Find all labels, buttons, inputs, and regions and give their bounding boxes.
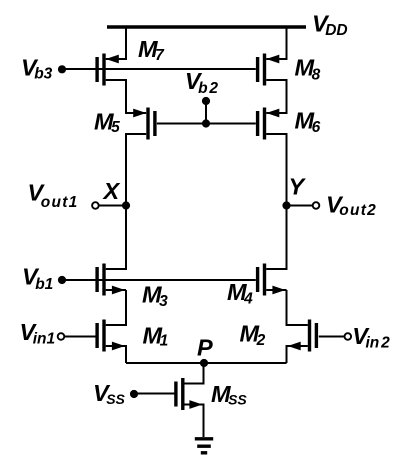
- wire M2 source to rail P: [287, 346, 308, 363]
- wire M8 drain to M6 source: [266, 80, 286, 113]
- wire Vb2 stub: [205, 101, 207, 124]
- terminal Vout1: [92, 202, 99, 209]
- transistor M4 (NMOS): [256, 264, 286, 296]
- wire M8 source to VDD: [266, 27, 286, 59]
- wire tail rail P: [126, 362, 287, 364]
- terminal dot Vb2: [202, 97, 210, 105]
- transistor M1 (NMOS): [95, 320, 125, 352]
- wire M5 drain to node X to M3 drain: [106, 134, 147, 269]
- wire Vb2 to gates of M5 M6: [157, 123, 256, 125]
- transistor MSS (NMOS): [174, 378, 202, 410]
- wire M4 source to M2 drain: [287, 290, 308, 325]
- transistor M8 (PMOS): [256, 54, 279, 86]
- node X dot: [122, 201, 130, 209]
- wire Vb1 to gates of M3 M4: [62, 279, 256, 281]
- ground: [195, 439, 213, 453]
- wire M7 source to VDD: [106, 27, 126, 59]
- wire Vin2 to M2 gate: [319, 336, 345, 338]
- transistor M5 (PMOS mirrored): [133, 108, 156, 140]
- svg-text:X: X: [102, 178, 121, 204]
- wire M4 source lead: [266, 289, 286, 291]
- wire P to MSS drain: [185, 363, 204, 384]
- VDD rail: [107, 25, 306, 28]
- transistor M3 (NMOS): [95, 264, 125, 296]
- transistor M2 (NMOS mirrored): [288, 320, 318, 352]
- junction dot Vb2 on gate wire: [202, 119, 210, 127]
- node Y dot: [282, 201, 290, 209]
- wire MSS source to ground: [185, 405, 204, 438]
- transistor M7 (PMOS): [95, 54, 118, 86]
- junction dot P: [200, 359, 208, 367]
- wire M6 drain to node Y to M4 drain: [266, 134, 286, 269]
- wire Vin1 to M1 gate: [64, 336, 96, 338]
- svg-text:Y: Y: [289, 173, 307, 199]
- wire M3 source to M1 drain: [106, 290, 126, 325]
- terminal Vin2: [345, 333, 352, 340]
- terminal dot Vb1: [58, 276, 66, 284]
- terminal dot VSS: [130, 390, 138, 398]
- svg-text:P: P: [197, 335, 213, 361]
- terminal dot Vb3: [58, 65, 66, 73]
- wire M3 source lead: [106, 289, 126, 291]
- wire M7 drain to M5 source: [106, 80, 147, 113]
- terminal Vout2: [313, 202, 320, 209]
- transistor M6 (PMOS): [256, 108, 279, 140]
- wire M1 source to rail P: [106, 346, 126, 363]
- terminal Vin1: [58, 333, 65, 340]
- wire Vb3 to gates of M7 M8: [62, 68, 256, 70]
- wire VSS to MSS gate: [134, 393, 175, 395]
- wire node X to Vout1 terminal: [99, 205, 127, 207]
- wire node Y to Vout2 terminal: [287, 205, 314, 207]
